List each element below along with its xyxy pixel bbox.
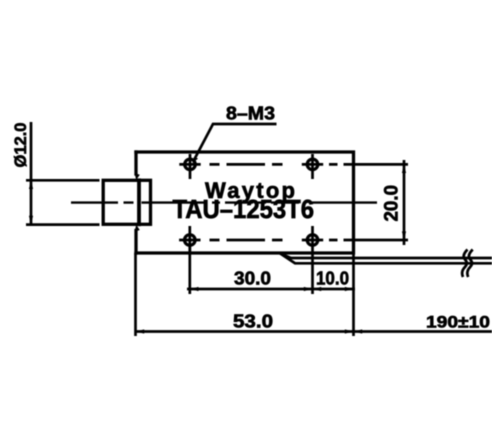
svg-text:Ø12.0: Ø12.0 <box>11 123 30 168</box>
svg-text:190±10: 190±10 <box>426 314 490 332</box>
svg-text:TAU–1253T6: TAU–1253T6 <box>173 196 315 224</box>
svg-text:10.0: 10.0 <box>316 267 349 288</box>
svg-text:53.0: 53.0 <box>233 310 273 331</box>
svg-text:8–M3: 8–M3 <box>226 103 275 124</box>
svg-text:30.0: 30.0 <box>234 267 271 288</box>
svg-text:20.0: 20.0 <box>381 185 403 222</box>
